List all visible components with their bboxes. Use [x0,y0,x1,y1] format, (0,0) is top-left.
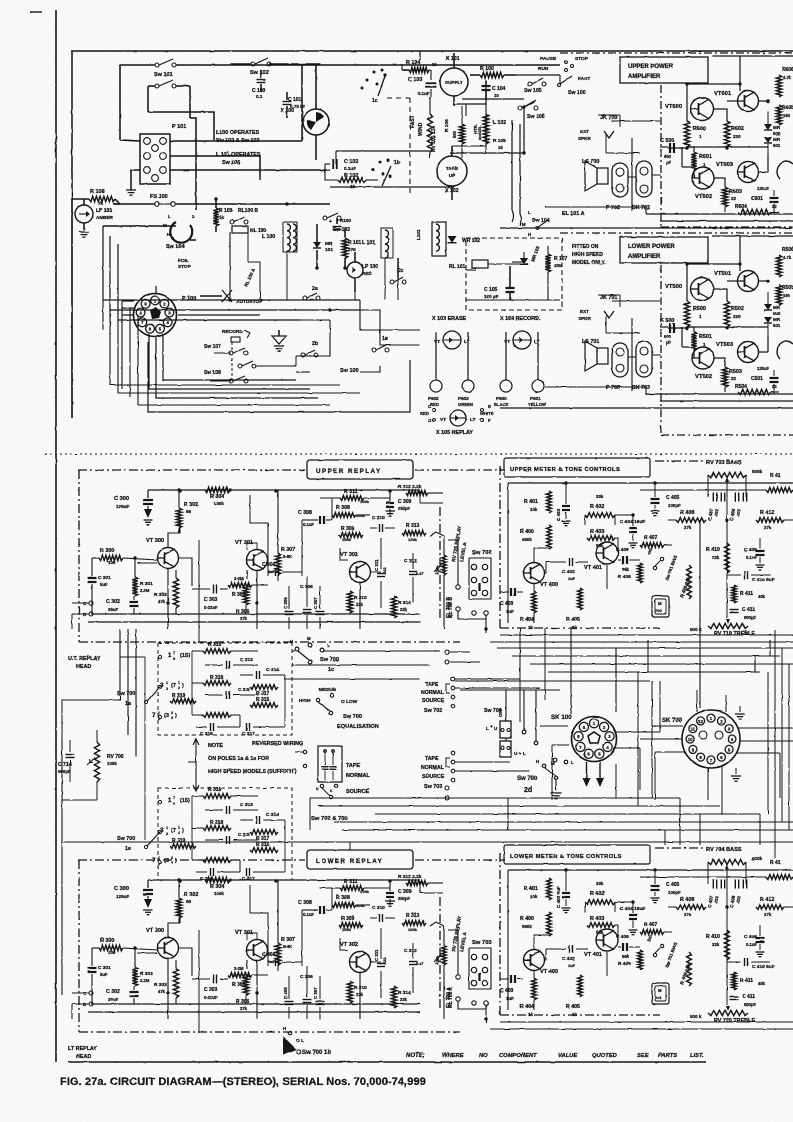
note L100 operates [216,130,261,166]
top bus meter [508,473,793,623]
ground below LP101 [79,232,89,237]
svg-text:C 409: C 409 [744,547,757,553]
svg-text:M: M [658,988,662,993]
svg-text:1: 1 [699,134,702,139]
midband lower bus 2 [318,805,720,807]
left terminals column [445,650,480,800]
wire bus e [296,300,420,356]
svg-text:RV 704 BASS: RV 704 BASS [706,847,742,853]
resistor R409 18k [679,952,692,986]
svg-text:1b: 1b [394,160,400,166]
SK100 side wires [540,681,660,800]
svg-text:270: 270 [348,247,356,252]
svg-text:R60b: R60b [782,105,793,111]
svg-text:R 405: R 405 [566,617,580,623]
svg-text:1: 1 [703,342,706,347]
speed label 1-7/8 [168,796,190,806]
svg-text:100k: 100k [360,889,370,894]
tape normal source switch mid [295,746,370,799]
label VT603 [716,162,734,168]
resistor R105 15 [493,138,506,150]
svg-text:R 407: R 407 [644,535,658,541]
transformer right [416,222,446,256]
capacitor C316 [196,723,240,737]
svg-text:EQUALISATION: EQUALISATION [337,724,379,730]
resistor R319 [170,693,196,703]
dash-dot border LOWER REPLAY [78,860,505,1032]
jack JK 700 [578,115,617,141]
svg-text:P 702: P 702 [606,205,620,211]
svg-text:C 307: C 307 [313,987,318,999]
svg-text:MODEL: MODEL [477,125,482,140]
svg-text:2: 2 [166,832,168,836]
svg-text:u: u [316,786,319,791]
svg-text:R 408: R 408 [680,510,694,516]
transistor VT500 [691,278,714,301]
svg-text:R 315: R 315 [256,697,270,703]
dash-dot border LOWER METER & TONE CONTROLS [500,848,705,1015]
resistor R405 1k [566,975,582,1017]
dashes sw106 [518,102,545,120]
svg-text:(15): (15) [180,798,190,804]
node dots mid [214,197,346,311]
resistor R318 [192,820,231,830]
selector contacts 1a [144,651,285,727]
svg-text:SPKR: SPKR [578,136,591,141]
svg-text:33k: 33k [596,494,604,499]
svg-text:VT 401: VT 401 [584,952,602,958]
switch SW108 [204,358,256,383]
left long verticals [62,660,68,995]
svg-text:SK 100: SK 100 [551,714,572,721]
svg-text:R 311: R 311 [344,489,358,495]
svg-text:P603: P603 [458,396,469,401]
svg-text:MR: MR [773,305,781,310]
svg-text:R 301: R 301 [140,581,153,587]
svg-text:R601: R601 [699,154,712,160]
capacitor top A [329,218,351,230]
transistor VT600 [691,98,714,121]
resistor R406 56k [618,563,642,583]
svg-text:R 402: R 402 [590,504,604,510]
resistor R310 22k [347,591,367,613]
svg-text:3: 3 [171,856,173,860]
svg-text:E: E [488,404,491,409]
svg-text:R 400: R 400 [520,529,534,535]
svg-text:C 301: C 301 [98,965,111,971]
resistor R319 [170,838,196,848]
resistor R602 [724,121,744,147]
svg-text:56k: 56k [622,954,630,959]
capacitor C312 0.47uF [404,553,423,591]
svg-text:R 410: R 410 [706,934,720,940]
label SW101 [154,72,173,78]
resistor R403 68k [587,529,615,548]
capacitor K 500 [660,318,674,345]
svg-text:MR: MR [773,317,781,322]
resistor R504 [735,384,777,395]
svg-text:C 101: C 101 [288,97,302,103]
arrows below SK100 [583,762,605,787]
svg-text:11: 11 [691,727,696,732]
svg-text:R 314: R 314 [398,990,411,996]
resistor R601 [691,152,712,170]
capacitor C317 [240,715,285,737]
svg-text:): ) [175,713,177,719]
svg-text:GREEN: GREEN [458,402,473,407]
dash-dot border UPPER POWER [560,53,793,227]
resistor R60b edge [776,105,793,125]
svg-text:): ) [182,683,184,689]
svg-text:VALUE: VALUE [558,1053,578,1059]
svg-text:pF: pF [666,160,672,165]
svg-text:L 102: L 102 [493,120,506,126]
svg-text:1: 1 [166,826,168,830]
svg-text:Sw 702: Sw 702 [472,550,492,556]
svg-text:LT: LT [470,417,476,423]
svg-text:R 304: R 304 [210,884,224,890]
switch SW100 label [340,368,359,374]
svg-text:40k: 40k [758,981,766,986]
svg-text:STOP: STOP [575,56,589,62]
capacitor C406 [616,547,640,564]
svg-text:2d: 2d [524,787,532,794]
svg-text:1k: 1k [219,215,225,220]
svg-text:AUTOSTOP: AUTOSTOP [236,299,263,305]
relay contact 2b [296,341,318,372]
svg-text:H: H [528,232,531,237]
svg-text:4.7k: 4.7k [783,75,792,80]
svg-text:R 406: R 406 [618,961,631,967]
note reversed wiring [188,739,303,791]
svg-text:O L: O L [296,1038,304,1044]
svg-text:TAPE: TAPE [425,756,439,762]
svg-text:2-2M: 2-2M [234,966,244,971]
svg-text:6-8K: 6-8K [283,554,292,559]
capacitor C402 1uF [546,558,588,581]
svg-text:47k: 47k [158,599,166,604]
svg-text:27k: 27k [684,912,692,917]
svg-text:0.1uF: 0.1uF [418,91,430,96]
svg-text:C 402: C 402 [562,956,575,962]
svg-text:68: 68 [186,509,192,514]
svg-text:TAPE: TAPE [425,682,439,688]
switch SW102 [230,58,320,66]
resistor R106 500 [444,106,465,158]
capacitor C305 [283,976,294,1019]
extra bottom bundle [122,301,330,405]
resistor R400 680k [520,525,551,549]
resistor R404 1k [520,583,536,630]
replay head X105 [420,404,494,436]
svg-text:HIGH: HIGH [299,698,311,703]
svg-text:L 101 OPERATES: L 101 OPERATES [216,152,261,158]
resistor R306 27k [236,975,250,1011]
resistor R314 22k [391,596,411,618]
switch Sw 701 BIAS [646,547,678,581]
svg-text:NORMAL: NORMAL [421,765,445,771]
svg-text:C 303: C 303 [204,987,218,993]
svg-text:R 316: R 316 [208,642,222,648]
resistor R311 100k [320,879,390,894]
capacitor C407 .022 [707,493,725,522]
svg-text:2-2M: 2-2M [234,576,244,581]
svg-text:C 403: C 403 [556,508,561,521]
wire bundle below upper replay [120,629,440,757]
resistor R317 [250,830,278,842]
pot RV 720 TREBLE [690,1006,755,1024]
svg-text:701: 701 [655,995,662,1000]
svg-text:600: 600 [773,131,781,136]
svg-text:R 408: R 408 [680,897,694,903]
svg-text:R501: R501 [699,334,712,340]
capacitor C310 [370,515,395,532]
relay contact 2a [303,286,320,300]
svg-text:1uF: 1uF [506,609,514,614]
label VT502 [695,374,712,380]
svg-text:C 303: C 303 [204,597,218,603]
svg-text:Sw 108: Sw 108 [204,370,221,376]
svg-text:UPPER POWER: UPPER POWER [628,64,674,70]
resistor R402 33k [585,881,615,912]
valve socket SK100 [551,714,617,762]
capacitor C315 [205,687,258,699]
svg-text:VT 302: VT 302 [340,552,358,558]
svg-text:HEAD: HEAD [76,664,91,670]
amp wiring 5 [500,236,793,408]
switch SW105 [524,78,546,94]
tone wiring [490,868,793,1029]
speed label 7-1/2 [152,856,177,866]
svg-text:R50b: R50b [782,285,793,291]
svg-text:MR: MR [773,137,781,142]
svg-text:RV 700: RV 700 [107,754,124,760]
svg-text:LIST.: LIST. [690,1053,704,1059]
transistor VT301 [235,930,268,961]
svg-text:3: 3 [171,711,173,715]
svg-text:AMPLIFIER: AMPLIFIER [628,254,661,260]
resistor R500 [684,301,706,327]
resistor R412 27k [756,897,793,917]
svg-text:22: 22 [731,196,737,201]
svg-text:7: 7 [173,796,175,800]
svg-text:220: 220 [733,314,741,319]
switch SW703 block [446,930,492,1023]
svg-text:R 100: R 100 [480,66,494,72]
resistor R100 [470,66,516,78]
svg-text:Sw 700: Sw 700 [343,714,362,720]
svg-text:R 302: R 302 [184,892,198,898]
svg-text:COMPONENT: COMPONENT [499,1053,537,1059]
resistor R408 27k [668,510,706,530]
svg-text:1k: 1k [572,625,577,630]
svg-text:C 308: C 308 [298,510,312,516]
resistor R312 2.2k [398,874,443,885]
svg-text:M: M [522,222,526,227]
svg-text:QUOTED: QUOTED [592,1053,618,1059]
capacitor C309 250pF [385,881,412,906]
svg-text:600pF: 600pF [58,769,71,774]
capacitor C410 5uF [727,958,775,970]
svg-text:L: L [528,210,531,215]
svg-text:160: 160 [783,293,791,298]
resistor R302 68 [176,880,198,923]
svg-text:C 405: C 405 [666,495,680,501]
capacitor C406 [616,934,640,951]
svg-text:U.T. REPLAY: U.T. REPLAY [68,656,101,662]
svg-text:C 410 5uF: C 410 5uF [752,577,775,583]
svg-text:250pF: 250pF [398,506,411,511]
capacitor C314 [240,812,285,824]
svg-text:Sw 100: Sw 100 [340,368,359,374]
wire mid risers [230,230,398,300]
wire bus b [103,299,360,301]
svg-text:PARTS: PARTS [658,1053,677,1059]
selector contacts 1e [144,796,285,872]
svg-text:LT REPLAY: LT REPLAY [68,1046,97,1052]
capacitor C315 [205,832,258,844]
title box LOWER REPLAY [307,850,413,869]
svg-text:0.1uF: 0.1uF [344,166,356,171]
label VT501 [714,271,732,277]
switch SW101 pole 1 [120,59,560,67]
svg-text:7: 7 [152,857,156,864]
svg-text:R 403: R 403 [590,529,604,535]
svg-text:C 103: C 103 [408,77,422,83]
resistor R308 100k [332,505,370,518]
svg-text:22k: 22k [712,555,720,560]
svg-text:U + L: U + L [514,751,526,757]
svg-text:R 105: R 105 [493,138,506,144]
svg-text:22: 22 [731,376,737,381]
svg-text:2.2M: 2.2M [140,588,150,593]
svg-text:27k: 27k [764,912,772,917]
transistor VT502 [692,347,714,369]
svg-text:EL 700 A: EL 700 A [446,987,452,1008]
svg-text:VT500: VT500 [665,284,682,290]
label FOIL STOP [178,258,192,270]
bottom border line [68,1061,706,1063]
capacitor C405 100uF [651,483,682,516]
wire drop pair [512,120,522,226]
svg-text:UPPER METER & TONE CONTROL: UPPER METER & TONE CONTROLS [510,467,620,473]
svg-text:H: H [283,1026,286,1031]
transistor edge partial [777,161,793,179]
tape normal source upper labels [421,677,540,714]
svg-text:C 317: C 317 [242,876,255,882]
svg-text:NORMAL: NORMAL [421,690,445,696]
resistor R405 1k [566,588,582,630]
wires P101 left [120,112,214,210]
switch SW101 pole 2 [148,80,190,88]
svg-text:1k: 1k [572,1012,577,1017]
label VT600 [665,104,682,110]
resistor R309 150k [339,526,363,542]
svg-text:C 304: C 304 [262,562,276,568]
switch SW704 [484,690,526,757]
resistor R301 2.2M [132,946,153,986]
svg-text:500k: 500k [752,856,763,861]
svg-text:R 314: R 314 [398,600,411,606]
tone wiring [490,481,793,642]
resistor R606 edge [776,67,793,97]
capacitor C307 [313,586,325,629]
svg-text:2.2M: 2.2M [140,978,150,983]
svg-text:R 401: R 401 [524,886,538,892]
motor X101 supply [440,53,468,106]
svg-text:680k: 680k [522,924,532,929]
transistor VT401 [584,929,618,958]
svg-text:R606: R606 [782,67,793,73]
svg-text:C 411: C 411 [742,994,755,1000]
svg-text:C 309: C 309 [398,889,412,895]
svg-text:R 403: R 403 [590,916,604,922]
switch SW100b [558,76,586,96]
svg-text:1: 1 [158,856,160,860]
resistor R314 22k [391,986,411,1008]
resistor R304 100k [205,877,230,896]
wires L102 cluster [450,99,536,155]
pot RV 719 TREBLE [690,619,755,637]
capacitor C312 0.47uF [404,943,423,981]
resistor R400 680k [520,912,551,936]
speaker LS 700 [582,159,608,191]
capacitor C105 [484,266,515,300]
svg-text:500: 500 [452,130,457,138]
rectifier MR103 [520,245,541,264]
pot RV700 100k [87,730,124,800]
svg-text:Sw 702: Sw 702 [424,708,442,714]
capacitor C408 .022 [729,880,747,909]
svg-text:R 101: R 101 [348,240,362,246]
svg-text:7: 7 [152,712,156,719]
capacitor C405 100uF [651,870,682,903]
svg-text:RED: RED [362,271,372,276]
motor X100 capstan [280,64,329,160]
svg-text:0.1uF: 0.1uF [746,555,757,560]
amp wiring 6 [500,56,793,228]
svg-text:700: 700 [655,608,662,613]
svg-text:R 311: R 311 [344,879,358,885]
autostop contact [200,290,263,305]
labels pause run stop fast [538,56,590,82]
svg-text:R 41: R 41 [770,473,781,479]
svg-text:RUN: RUN [538,66,549,72]
svg-text:C 104: C 104 [492,86,506,92]
resistor R310 22k [347,981,367,1003]
svg-text:OFF: OFF [498,708,503,717]
svg-text:AMPLIFIER: AMPLIFIER [628,74,661,80]
title box UPPER POWER [620,57,708,83]
resistor R502 [724,301,744,327]
svg-text:R 406: R 406 [618,574,631,580]
amp aux wires 5 [598,295,661,357]
capacitor C409 0.1uF [744,538,765,570]
diodes MR5 [764,292,781,335]
svg-text:C 405: C 405 [666,882,680,888]
svg-text:R 108: R 108 [90,189,105,195]
svg-text:R 316: R 316 [208,787,222,793]
transistor VT603 [738,162,759,183]
svg-text:P600: P600 [496,396,507,401]
svg-text:2: 2 [166,687,168,691]
svg-text:R 41: R 41 [770,860,781,866]
ground SK700 top [735,706,745,719]
svg-text:R 303: R 303 [154,982,167,988]
svg-text:40k: 40k [758,594,766,599]
svg-text:R 303: R 303 [154,592,167,598]
svg-text:X 103 ERASE: X 103 ERASE [432,316,467,322]
